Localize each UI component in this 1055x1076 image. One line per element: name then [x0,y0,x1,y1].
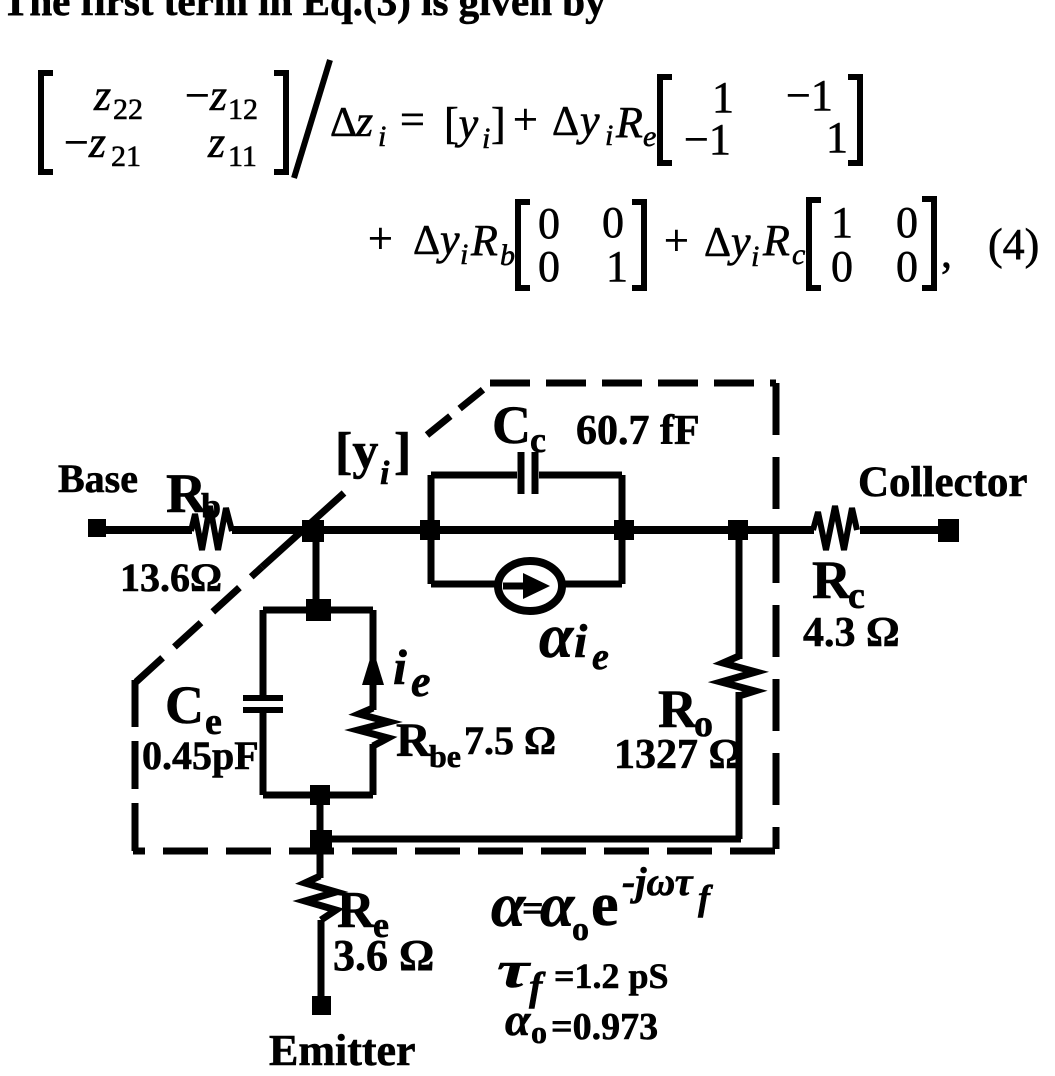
svg-text:i: i [380,455,390,492]
svg-text:−1: −1 [684,115,731,164]
svg-text:y: y [727,217,751,266]
svg-text:τ: τ [497,942,532,999]
svg-text:+: + [664,216,689,265]
svg-text:+: + [513,95,538,144]
svg-text:i: i [574,615,588,668]
svg-text:α: α [505,994,532,1045]
svg-text:=0.973: =0.973 [551,1006,658,1048]
svg-text:α: α [539,603,575,671]
svg-text:α: α [540,872,576,940]
svg-text:11: 11 [228,140,257,173]
svg-text:R: R [812,550,852,610]
svg-text:Δ: Δ [704,220,731,266]
svg-text:0: 0 [538,242,560,291]
svg-text:−z: −z [64,118,106,167]
svg-text:y: y [576,96,600,145]
svg-text:0: 0 [602,198,624,247]
svg-text:be: be [429,738,461,774]
svg-text:i: i [751,240,759,273]
svg-text:R: R [615,98,643,147]
svg-text:0: 0 [538,199,560,248]
svg-text:Δ: Δ [552,99,579,145]
svg-text:]: ] [394,423,411,480]
svg-text:1: 1 [831,198,853,247]
svg-text:Collector: Collector [858,459,1028,506]
svg-text:R: R [396,714,432,767]
svg-text:−z: −z [185,71,227,120]
svg-text:z: z [207,118,225,167]
svg-text:z: z [93,71,111,120]
svg-text:R: R [658,679,698,739]
svg-text:c: c [792,238,805,271]
svg-text:0: 0 [896,242,918,291]
svg-text:1: 1 [826,113,848,162]
svg-text:b: b [201,486,221,526]
svg-text:i: i [378,120,386,153]
svg-text:,: , [941,228,952,277]
svg-text:13.6Ω: 13.6Ω [120,555,222,600]
svg-text:+: + [368,214,393,263]
svg-text:e: e [592,636,609,678]
svg-text:c: c [530,420,546,460]
svg-text:7.5 Ω: 7.5 Ω [464,718,556,763]
svg-text:1: 1 [606,242,628,291]
svg-text:]: ] [491,99,506,148]
svg-text:=1.2 pS: =1.2 pS [554,956,669,996]
svg-text:0: 0 [896,198,918,247]
svg-text:[y: [y [335,423,378,480]
svg-text:C: C [492,395,531,455]
svg-text:12: 12 [228,93,258,126]
svg-text:R: R [470,216,498,265]
svg-text:0.45pF: 0.45pF [142,733,259,778]
svg-text:Base: Base [58,456,138,501]
svg-text:e: e [411,657,431,706]
svg-text:(4): (4) [988,220,1039,269]
svg-text:C: C [165,675,204,735]
svg-text:21: 21 [111,140,141,173]
svg-text:y: y [436,215,460,264]
svg-text:i: i [605,119,613,152]
svg-text:i: i [393,639,407,695]
svg-text:z: z [355,97,373,146]
svg-text:b: b [500,239,515,272]
svg-text:22: 22 [113,93,143,126]
svg-text:60.7 fF: 60.7 fF [576,408,700,454]
svg-text:=: = [400,95,425,144]
svg-text:1327 Ω: 1327 Ω [614,732,742,778]
svg-text:i: i [482,122,490,155]
svg-text:Emitter: Emitter [269,1026,416,1075]
svg-text:i: i [460,238,468,271]
svg-text:e: e [591,871,619,939]
svg-text:e: e [643,120,656,153]
svg-text:The first term in Eq.(3) is gi: The first term in Eq.(3) is given by [2,0,606,24]
svg-text:4.3 Ω: 4.3 Ω [803,610,900,656]
svg-text:3.6 Ω: 3.6 Ω [333,931,434,980]
svg-text:o: o [531,1014,547,1050]
svg-text:-jωτ: -jωτ [622,859,694,904]
svg-text:[y: [y [444,99,479,148]
svg-text:R: R [762,216,790,265]
svg-text:0: 0 [831,242,853,291]
svg-text:o: o [572,911,589,948]
svg-text:Δ: Δ [330,100,357,146]
svg-text:Δ: Δ [413,218,440,264]
